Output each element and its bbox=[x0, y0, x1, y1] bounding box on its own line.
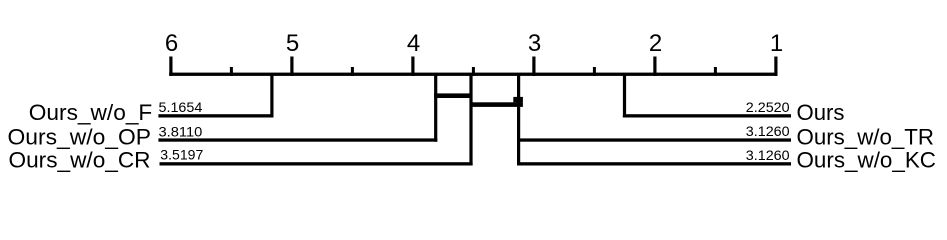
major tick rank 1 bbox=[774, 57, 777, 76]
svg-text:5: 5 bbox=[286, 30, 299, 57]
major tick rank 6 bbox=[169, 57, 172, 76]
svg-text:3.5197: 3.5197 bbox=[160, 146, 203, 162]
row line Ours bbox=[623, 114, 791, 117]
svg-text:3: 3 bbox=[528, 30, 541, 57]
svg-text:2.2520: 2.2520 bbox=[746, 99, 790, 115]
major tick rank 3 bbox=[532, 57, 535, 76]
svg-text:Ours: Ours bbox=[797, 100, 845, 125]
vertical line Ours_w/o_TR and Ours_w/o_KC rank 3.1260 bbox=[517, 74, 520, 166]
minor tick 4.5 bbox=[351, 67, 354, 76]
vertical line Ours_w/o_OP rank 3.8110 bbox=[434, 74, 437, 142]
svg-text:4: 4 bbox=[407, 30, 420, 57]
svg-text:Ours_w/o_KC: Ours_w/o_KC bbox=[797, 148, 937, 173]
svg-text:Ours_w/o_TR: Ours_w/o_TR bbox=[797, 124, 935, 149]
svg-text:3.1260: 3.1260 bbox=[746, 123, 790, 139]
svg-text:6: 6 bbox=[165, 30, 178, 57]
minor tick 5.5 bbox=[230, 67, 233, 76]
vertical line Ours_w/o_F rank 5.1654 bbox=[270, 74, 273, 118]
row line Ours_w/o_F bbox=[158, 114, 273, 117]
clique bar Ours_w/o_CR to Ours_w/o_KC bbox=[471, 102, 523, 107]
minor tick 1.5 bbox=[714, 67, 717, 76]
svg-text:5.1654: 5.1654 bbox=[159, 99, 203, 115]
row line Ours_w/o_KC bbox=[517, 162, 791, 165]
row line Ours_w/o_TR bbox=[517, 138, 791, 141]
minor tick 3.5 bbox=[472, 67, 475, 76]
clique bar Ours_w/o_TR to Ours_w/o_KC bbox=[513, 97, 523, 103]
svg-text:3.8110: 3.8110 bbox=[159, 123, 203, 139]
svg-text:Ours_w/o_F: Ours_w/o_F bbox=[29, 100, 153, 125]
svg-text:Ours_w/o_OP: Ours_w/o_OP bbox=[8, 124, 152, 149]
svg-text:Ours_w/o_CR: Ours_w/o_CR bbox=[9, 148, 151, 173]
vertical line Ours_w/o_CR rank 3.5197 bbox=[469, 74, 472, 166]
minor tick 2.5 bbox=[593, 67, 596, 76]
svg-text:3.1260: 3.1260 bbox=[746, 147, 790, 163]
svg-text:2: 2 bbox=[649, 30, 662, 57]
vertical line Ours rank 2.2520 bbox=[623, 74, 626, 118]
clique bar Ours_w/o_OP to Ours_w/o_CR bbox=[434, 93, 470, 98]
svg-text:1: 1 bbox=[770, 30, 783, 57]
major tick rank 5 bbox=[290, 57, 293, 76]
major tick rank 2 bbox=[653, 57, 656, 76]
major tick rank 4 bbox=[411, 57, 414, 76]
row line Ours_w/o_OP bbox=[158, 138, 437, 141]
row line Ours_w/o_CR bbox=[160, 162, 473, 165]
axis line bbox=[169, 73, 777, 76]
